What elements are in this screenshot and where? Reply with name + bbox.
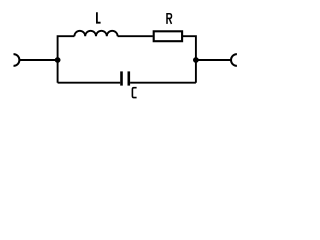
label L	[97, 12, 101, 23]
capacitor C1 right plate	[128, 71, 131, 85]
wire capacitor to bottom right	[130, 82, 196, 84]
wire bottom left to capacitor	[58, 82, 121, 84]
wire left vertical + top segment to inductor	[58, 36, 75, 82]
wire resistor to right vertical, right vertical down	[183, 36, 196, 82]
node B (right junction dot)	[193, 57, 199, 63]
label C	[132, 88, 136, 98]
terminal right (open connector)	[231, 54, 237, 66]
wire left terminal to node A	[19, 59, 58, 61]
wire inductor to resistor	[118, 35, 153, 37]
label R	[167, 13, 172, 24]
node A (left junction dot)	[55, 57, 61, 63]
terminal left (open connector)	[14, 54, 20, 66]
capacitor C1 left plate	[120, 71, 123, 85]
inductor L1 (4 humps)	[74, 31, 117, 36]
wire node B to right terminal	[196, 59, 231, 61]
resistor R1	[154, 31, 182, 41]
